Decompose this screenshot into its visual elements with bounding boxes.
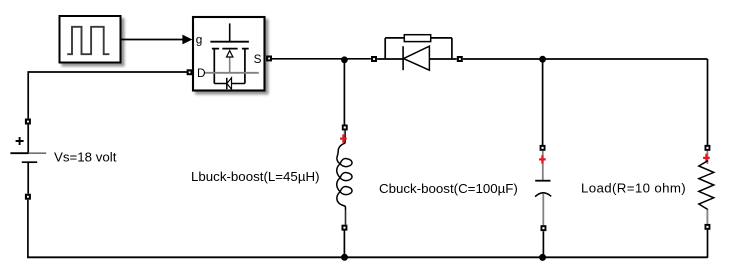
inductor red plus bbox=[340, 134, 347, 142]
inductor top stub (gray) bbox=[343, 130, 345, 143]
pulse generator waveform bbox=[67, 27, 109, 54]
wire: inductor top lead down from junction bbox=[343, 59, 345, 125]
svg-text:Lbuck-boost(L=45µH): Lbuck-boost(L=45µH) bbox=[191, 169, 320, 184]
wire: right vertical down to resistor top port bbox=[707, 59, 709, 145]
svg-text:S: S bbox=[254, 52, 262, 66]
arrowhead at gate input bbox=[182, 35, 192, 45]
MOSFET drain stem (left) bbox=[213, 49, 215, 84]
capacitor Cbuck-boost bbox=[379, 151, 551, 225]
diode D1 with snubber bbox=[377, 35, 457, 70]
svg-text:Cbuck-boost(C=100µF): Cbuck-boost(C=100µF) bbox=[379, 181, 518, 196]
wire: S port to inductor junction to diode left port bbox=[272, 58, 371, 60]
signal wire: pulse generator to MOSFET gate bbox=[122, 39, 184, 41]
MOSFET bulk stem (gray) bbox=[229, 57, 231, 74]
MOSFET gate plate bbox=[210, 41, 249, 43]
port: battery - bbox=[25, 194, 31, 200]
battery top lead bbox=[27, 125, 29, 154]
MOSFET D rail (gray) bbox=[204, 72, 258, 74]
battery long plate (right gray part) bbox=[29, 152, 47, 154]
wire: D rail from left corner to MOSFET D port bbox=[28, 71, 187, 73]
MOSFET gate lead bbox=[229, 23, 231, 41]
wire: resistor bottom to bus bbox=[707, 230, 709, 258]
pulse generator block bbox=[60, 16, 121, 63]
inductor coil bbox=[337, 143, 352, 210]
inductor top lead bbox=[344, 130, 346, 143]
resistor top stub (gray) bbox=[706, 151, 708, 164]
junction node: inductor bottom bbox=[341, 254, 348, 261]
DC voltage source Vs bbox=[10, 125, 116, 194]
resistor red plus bbox=[703, 154, 710, 162]
battery short plate bbox=[22, 161, 37, 163]
snubber left riser bbox=[384, 38, 386, 59]
resistor zigzag bbox=[699, 161, 714, 210]
junction node: capacitor top bbox=[539, 56, 546, 63]
port: MOSFET D bbox=[187, 69, 193, 75]
snubber right riser bbox=[451, 38, 453, 59]
wire: capacitor branch vertical bbox=[542, 59, 544, 145]
junction node: capacitor bottom bbox=[539, 254, 546, 261]
MOSFET source stem (right) bbox=[244, 49, 246, 84]
capacitor bottom plate (curved) bbox=[535, 193, 551, 197]
diode anode wire bbox=[429, 58, 456, 60]
port: resistor bottom bbox=[705, 224, 711, 230]
snubber resistor box bbox=[404, 35, 430, 42]
port: MOSFET S bbox=[266, 56, 272, 62]
capacitor bottom stub (gray) bbox=[542, 193, 544, 225]
svg-text:Vs=18 volt: Vs=18 volt bbox=[54, 150, 117, 165]
battery plus sign bbox=[16, 137, 24, 145]
capacitor red plus bbox=[539, 155, 546, 163]
capacitor top plate bbox=[535, 180, 550, 182]
port: resistor top bbox=[705, 145, 711, 151]
resistor bottom stub (gray) bbox=[706, 210, 708, 224]
wire: left vertical down to battery top port bbox=[27, 71, 29, 118]
wire: diode right port to top-right corner bbox=[463, 58, 708, 60]
MOSFET body diode wire bbox=[214, 83, 245, 85]
svg-text:Load(R=10 ohm): Load(R=10 ohm) bbox=[581, 181, 686, 196]
MOSFET body diode triangle bbox=[227, 78, 232, 89]
port: capacitor bottom bbox=[541, 225, 547, 231]
diode triangle bbox=[404, 46, 430, 70]
wire: inductor bottom to bus bbox=[343, 231, 345, 258]
MOSFET block U1 bbox=[193, 17, 265, 91]
port: battery + bbox=[25, 119, 31, 125]
svg-text:D: D bbox=[197, 66, 206, 80]
diode cathode bar bbox=[402, 46, 404, 70]
port: inductor bottom bbox=[342, 225, 348, 231]
diode cathode wire bbox=[377, 58, 403, 60]
port: diode right bbox=[457, 56, 463, 62]
wire: battery bottom port to bottom bus bbox=[27, 200, 29, 258]
inductor bottom lead bbox=[345, 211, 347, 225]
port: diode left bbox=[371, 56, 377, 62]
port: inductor top bbox=[342, 125, 348, 131]
snubber top wire left bbox=[385, 37, 404, 39]
MOSFET body diode cathode bar bbox=[226, 78, 228, 89]
snubber top wire right bbox=[431, 37, 452, 39]
wire: capacitor bottom to bus bbox=[542, 231, 544, 257]
capacitor top stub (gray) bbox=[542, 151, 544, 180]
resistor Load bbox=[581, 151, 714, 224]
svg-text:g: g bbox=[196, 33, 203, 47]
battery long plate (left black part) bbox=[10, 152, 28, 154]
junction node: inductor top bbox=[341, 56, 348, 63]
MOSFET channel contact segments bbox=[212, 48, 249, 50]
battery bottom lead bbox=[27, 162, 29, 193]
MOSFET channel arrow bbox=[227, 51, 233, 57]
port: capacitor top bbox=[540, 145, 546, 151]
inductor Lbuck-boost bbox=[191, 130, 352, 224]
wire: bottom bus bbox=[27, 256, 707, 258]
